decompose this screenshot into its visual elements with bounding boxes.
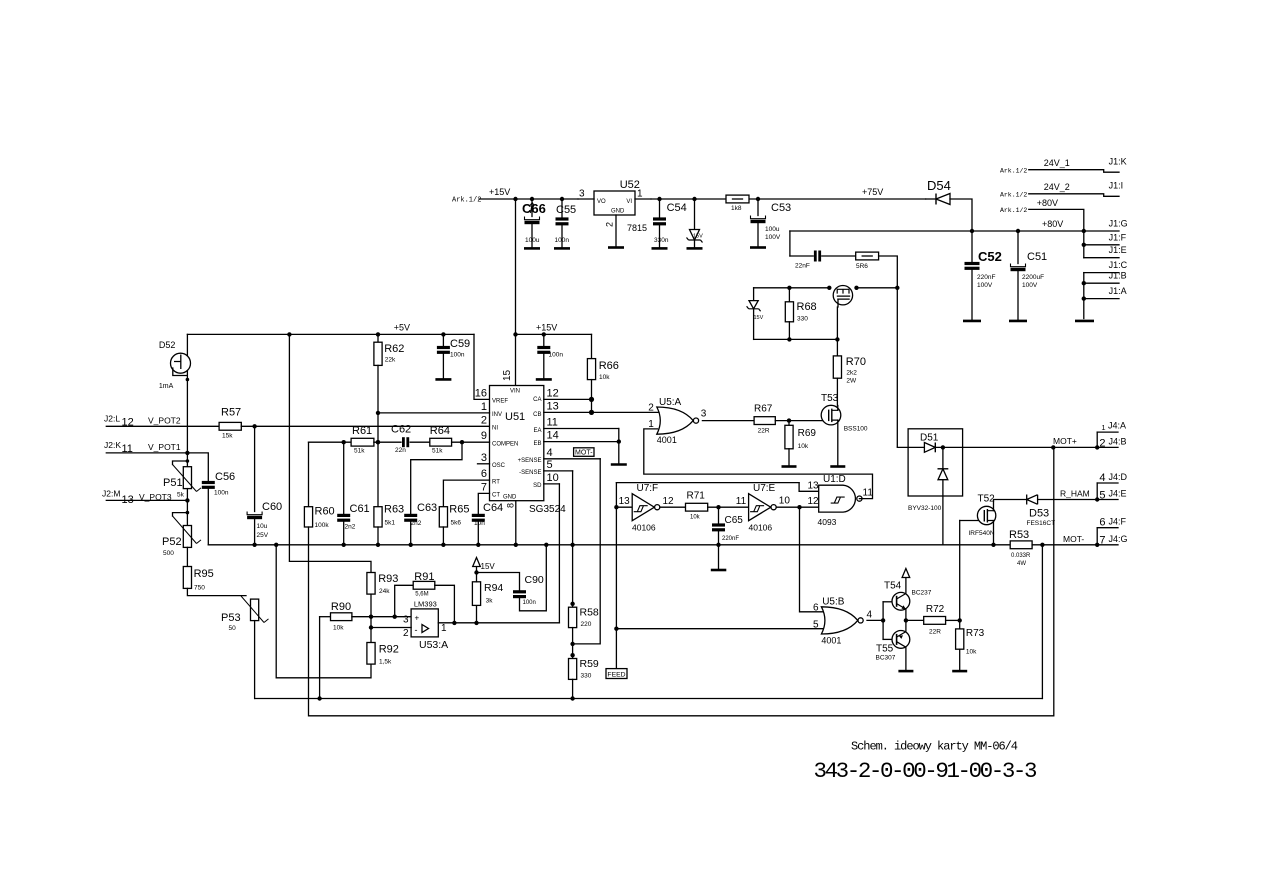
potentiometer P52 bbox=[186, 511, 190, 515]
svg-text:12: 12 bbox=[547, 387, 559, 399]
svg-text:T54: T54 bbox=[884, 581, 902, 592]
wire R71 to U7E bbox=[708, 506, 749, 508]
connector J4:A bbox=[1097, 431, 1118, 433]
svg-text:GND: GND bbox=[611, 209, 625, 215]
svg-text:MOT-: MOT- bbox=[575, 450, 593, 457]
svg-text:4001: 4001 bbox=[821, 636, 841, 646]
svg-text:2: 2 bbox=[481, 414, 487, 426]
svg-text:U1:D: U1:D bbox=[823, 474, 846, 485]
net label MOT- box bbox=[574, 448, 594, 457]
svg-text:FES16CT: FES16CT bbox=[1027, 520, 1056, 527]
svg-text:+15V: +15V bbox=[536, 323, 557, 333]
svg-text:40106: 40106 bbox=[632, 523, 656, 533]
resistor R65 bbox=[443, 480, 489, 507]
resistor R93 bbox=[367, 573, 375, 595]
resistor R59 bbox=[569, 659, 577, 680]
svg-text:T53: T53 bbox=[821, 393, 839, 404]
wire pin9 node to C63 bbox=[411, 442, 462, 514]
svg-text:R60: R60 bbox=[315, 506, 335, 518]
svg-text:5k6: 5k6 bbox=[451, 520, 462, 527]
wire R67 to T53 gate bbox=[775, 420, 822, 422]
svg-text:J4:A: J4:A bbox=[1108, 421, 1126, 431]
svg-text:VREF: VREF bbox=[492, 399, 508, 405]
wire U1D pin13 net thick bbox=[616, 482, 799, 484]
svg-text:24k: 24k bbox=[379, 588, 390, 595]
svg-text:100n: 100n bbox=[523, 600, 536, 606]
gate U1:D 4093 bbox=[799, 483, 819, 492]
svg-text:U5:A: U5:A bbox=[659, 397, 682, 408]
diode D51 BYV32-100 bbox=[908, 429, 963, 496]
wire R66 to CA/CB bbox=[591, 380, 593, 413]
wire U53 output bbox=[438, 622, 559, 624]
svg-text:MOT-: MOT- bbox=[1063, 534, 1084, 544]
svg-text:14: 14 bbox=[547, 430, 559, 442]
wire R70 to T53 drain bbox=[836, 378, 838, 406]
svg-text:GND: GND bbox=[503, 495, 517, 501]
wire R62-R63 column bbox=[377, 365, 379, 506]
resistor R72 bbox=[906, 619, 924, 621]
wire R61 to C62 bbox=[374, 441, 401, 443]
connector J1:A bbox=[1082, 296, 1086, 300]
svg-text:+75V: +75V bbox=[862, 187, 883, 197]
wire row2 bbox=[754, 338, 838, 340]
svg-text:10k: 10k bbox=[599, 374, 610, 381]
connector J1:G bbox=[1082, 229, 1086, 233]
svg-text:4: 4 bbox=[547, 447, 553, 459]
capacitor C54 bbox=[657, 197, 661, 201]
gate U7:E 40106 bbox=[749, 494, 771, 521]
svg-text:51k: 51k bbox=[354, 448, 365, 455]
svg-text:15V: 15V bbox=[693, 234, 703, 240]
svg-text:U52: U52 bbox=[620, 179, 640, 191]
svg-text:9: 9 bbox=[481, 430, 487, 442]
svg-text:220: 220 bbox=[581, 621, 592, 628]
connector J1:F bbox=[1082, 243, 1086, 247]
svg-text:22R: 22R bbox=[758, 428, 770, 435]
svg-text:-SENSE: -SENSE bbox=[519, 470, 541, 476]
svg-text:51k: 51k bbox=[432, 448, 443, 455]
wire R90 to U53 pin3 bbox=[352, 616, 411, 618]
svg-text:J1:A: J1:A bbox=[1109, 286, 1127, 296]
svg-text:R53: R53 bbox=[1009, 529, 1029, 541]
svg-text:R57: R57 bbox=[221, 407, 241, 419]
svg-text:R64: R64 bbox=[430, 425, 450, 437]
svg-text:6: 6 bbox=[481, 468, 487, 480]
wire gate row1 bbox=[754, 287, 830, 289]
svg-text:R59: R59 bbox=[580, 658, 599, 670]
svg-text:5: 5 bbox=[1099, 489, 1105, 501]
svg-text:1mA: 1mA bbox=[159, 383, 174, 390]
svg-text:J2:K: J2:K bbox=[104, 440, 121, 450]
pin13 CB wire bbox=[544, 411, 659, 413]
svg-text:R92: R92 bbox=[379, 644, 399, 656]
svg-text:500: 500 bbox=[163, 550, 174, 557]
svg-text:2: 2 bbox=[605, 222, 615, 227]
svg-text:C64: C64 bbox=[483, 502, 503, 514]
wire -SENSE down bbox=[572, 471, 574, 607]
resistor R63 bbox=[374, 507, 382, 527]
wire +80V rail bbox=[790, 230, 1084, 232]
wire +5V drop to R93 bbox=[289, 334, 371, 572]
zener diode 15V left bbox=[753, 288, 755, 301]
pin8 GND wire bbox=[515, 501, 517, 545]
svg-text:R91: R91 bbox=[414, 571, 434, 583]
wire T55 collector to ground bbox=[905, 647, 907, 671]
wire U7E out down to U5B pin6 bbox=[800, 507, 824, 612]
svg-text:10: 10 bbox=[547, 472, 559, 484]
gate U5:A 4001 bbox=[657, 407, 693, 434]
svg-text:RT: RT bbox=[492, 479, 500, 485]
svg-text:100n: 100n bbox=[549, 352, 564, 359]
svg-text:C54: C54 bbox=[667, 202, 687, 214]
svg-text:6: 6 bbox=[813, 603, 819, 614]
svg-text:10n: 10n bbox=[474, 520, 485, 527]
wire U53 pin2 bbox=[371, 627, 411, 629]
svg-text:5: 5 bbox=[813, 619, 819, 630]
svg-text:INV: INV bbox=[492, 412, 502, 418]
wire T53 source to ground bbox=[837, 420, 839, 466]
wire +15V sub rail bbox=[516, 333, 592, 335]
svg-text:J1:B: J1:B bbox=[1109, 271, 1127, 281]
wire SD down to U53 out bbox=[438, 484, 559, 623]
svg-text:2n2: 2n2 bbox=[345, 524, 356, 531]
svg-text:J1:C: J1:C bbox=[1109, 260, 1128, 270]
svg-text:J1:F: J1:F bbox=[1109, 232, 1127, 242]
svg-text:100n: 100n bbox=[555, 237, 570, 244]
svg-text:R63: R63 bbox=[384, 504, 404, 516]
resistor R67 bbox=[754, 417, 775, 425]
svg-text:SD: SD bbox=[533, 483, 542, 489]
svg-text:COMPEN: COMPEN bbox=[492, 442, 518, 448]
svg-text:7815: 7815 bbox=[627, 223, 647, 233]
wire feed vertical bbox=[615, 483, 617, 669]
svg-text:J1:K: J1:K bbox=[1109, 157, 1127, 167]
svg-text:7: 7 bbox=[1099, 535, 1105, 547]
resistor R64 bbox=[410, 441, 430, 443]
svg-text:50: 50 bbox=[229, 625, 237, 632]
svg-text:1,5k: 1,5k bbox=[379, 659, 392, 666]
svg-text:CB: CB bbox=[533, 412, 541, 418]
pin14 EB wire bbox=[544, 441, 619, 443]
svg-text:J1:G: J1:G bbox=[1109, 219, 1128, 229]
wire R60 to rail2 / MOT+ feedback bbox=[309, 447, 1054, 715]
svg-text:4: 4 bbox=[1099, 472, 1105, 484]
wire R95 to P53 bbox=[187, 588, 246, 595]
svg-text:U53:A: U53:A bbox=[419, 639, 448, 651]
wire P51-P52 junction bbox=[186, 489, 188, 526]
wire R90 left to rail1 bbox=[319, 617, 321, 699]
svg-text:C60: C60 bbox=[262, 501, 282, 513]
svg-text:R66: R66 bbox=[599, 360, 619, 372]
svg-text:3: 3 bbox=[579, 189, 585, 200]
resistor R61 bbox=[351, 438, 374, 446]
resistor R92 bbox=[367, 643, 375, 665]
wire T52 gate bbox=[960, 520, 978, 522]
connector J1:C bbox=[1083, 273, 1085, 319]
svg-text:10k: 10k bbox=[966, 649, 977, 656]
svg-text:D52: D52 bbox=[159, 340, 176, 350]
pin11 EA wire thick bbox=[544, 428, 619, 430]
svg-text:24V_1: 24V_1 bbox=[1044, 158, 1070, 168]
svg-text:0.033R: 0.033R bbox=[1011, 553, 1031, 559]
svg-text:J4:B: J4:B bbox=[1109, 437, 1127, 447]
svg-text:24V_2: 24V_2 bbox=[1044, 182, 1070, 192]
svg-text:R69: R69 bbox=[798, 428, 817, 439]
connector J1:B bbox=[1082, 281, 1086, 285]
ground J1 bbox=[1075, 320, 1094, 323]
svg-text:R67: R67 bbox=[754, 404, 773, 415]
svg-text:U51: U51 bbox=[505, 411, 525, 423]
connector J4:E bbox=[1096, 483, 1098, 500]
svg-text:2: 2 bbox=[403, 628, 409, 639]
svg-text:U7:F: U7:F bbox=[637, 483, 659, 494]
svg-text:22n: 22n bbox=[395, 447, 406, 454]
svg-text:FEED: FEED bbox=[607, 671, 625, 678]
svg-text:22nF: 22nF bbox=[795, 263, 810, 270]
svg-text:11: 11 bbox=[547, 417, 558, 429]
wire +15V rail left bbox=[479, 198, 578, 200]
wire U5B pin5 row bbox=[616, 628, 823, 630]
svg-text:R_HAM: R_HAM bbox=[1060, 489, 1090, 499]
wire T54 emitter to node bbox=[905, 609, 907, 632]
capacitor C60 bbox=[254, 426, 256, 511]
wire T52 gate down to R72 node bbox=[959, 521, 961, 621]
resistor R91 feedback bbox=[395, 585, 414, 616]
svg-text:C90: C90 bbox=[525, 574, 544, 586]
wire U1D out feedback to U5A pin1 bbox=[644, 429, 873, 499]
svg-text:J1:I: J1:I bbox=[1109, 181, 1124, 191]
svg-text:Ark.1/2: Ark.1/2 bbox=[1000, 167, 1027, 174]
svg-text:15V: 15V bbox=[481, 562, 496, 571]
wire U5A out to R67 bbox=[702, 420, 754, 422]
svg-text:J4:D: J4:D bbox=[1109, 472, 1128, 482]
wire EA-EB to ground thick bbox=[618, 429, 620, 465]
svg-text:+: + bbox=[415, 614, 420, 623]
svg-text:R58: R58 bbox=[580, 607, 599, 619]
svg-text:J2:L: J2:L bbox=[104, 414, 120, 424]
svg-text:BC237: BC237 bbox=[912, 590, 932, 597]
wire T54/T55 base column bbox=[882, 602, 884, 640]
gate U7:F 40106 bbox=[616, 506, 632, 508]
capacitor C59 bbox=[442, 334, 444, 346]
svg-text:C51: C51 bbox=[1027, 251, 1047, 263]
svg-text:BSS100: BSS100 bbox=[844, 426, 868, 433]
svg-text:4W: 4W bbox=[1017, 561, 1026, 567]
svg-text:12: 12 bbox=[808, 496, 820, 507]
svg-text:3: 3 bbox=[701, 409, 707, 420]
svg-text:R62: R62 bbox=[384, 343, 404, 355]
svg-text:J1:E: J1:E bbox=[1109, 245, 1127, 255]
svg-text:330: 330 bbox=[581, 673, 592, 680]
wire VREF pin16 bbox=[474, 334, 490, 399]
resistor R90 bbox=[320, 616, 331, 618]
svg-text:R95: R95 bbox=[194, 568, 214, 580]
connector J4:G bbox=[1096, 528, 1098, 545]
svg-text:13: 13 bbox=[619, 496, 631, 507]
wire T52 drain to R_HAM bbox=[994, 500, 1027, 511]
net label FEED box bbox=[606, 669, 627, 679]
zener diode 15V at C54 bbox=[692, 197, 696, 201]
svg-text:100u: 100u bbox=[525, 237, 540, 244]
svg-text:EA: EA bbox=[533, 428, 541, 434]
svg-text:5R6: 5R6 bbox=[856, 263, 868, 270]
svg-text:5k: 5k bbox=[177, 492, 185, 499]
pin12 CA stub bbox=[544, 398, 592, 400]
svg-text:15V: 15V bbox=[754, 315, 764, 321]
wire to C56 bbox=[187, 453, 208, 481]
capacitor C65 bbox=[718, 507, 720, 523]
svg-text:Ark.1/2: Ark.1/2 bbox=[1000, 191, 1027, 198]
svg-text:R93: R93 bbox=[378, 573, 398, 585]
svg-text:2200uF: 2200uF bbox=[1022, 274, 1044, 281]
svg-text:100k: 100k bbox=[315, 522, 330, 529]
svg-text:D54: D54 bbox=[927, 178, 951, 193]
svg-text:T52: T52 bbox=[978, 494, 996, 505]
svg-text:P52: P52 bbox=[162, 536, 182, 548]
wire bottom rail1 bbox=[255, 698, 1043, 700]
svg-text:100V: 100V bbox=[765, 234, 781, 241]
capacitor C64 bbox=[478, 493, 489, 514]
wire R64 to pin9 bbox=[452, 441, 490, 443]
svg-text:11: 11 bbox=[863, 488, 874, 499]
pin3 stub bbox=[478, 463, 490, 465]
svg-text:J2:M: J2:M bbox=[102, 489, 120, 499]
svg-text:LM393: LM393 bbox=[414, 599, 437, 608]
pin5 -SENSE wire bbox=[544, 470, 573, 472]
capacitor C66 bbox=[530, 197, 534, 201]
wire R57 to U51 pin2 bbox=[241, 425, 489, 427]
wire +5V rail bbox=[187, 333, 474, 335]
pin1 wire bbox=[378, 412, 490, 414]
svg-text:C53: C53 bbox=[771, 202, 791, 214]
svg-text:+15V: +15V bbox=[489, 187, 510, 197]
capacitor C53 bbox=[756, 197, 760, 201]
svg-text:6: 6 bbox=[1099, 517, 1105, 529]
svg-text:C52: C52 bbox=[978, 249, 1002, 264]
wire R92 bottom to ground rail bbox=[276, 545, 371, 678]
wire U7F out to R71 bbox=[660, 506, 686, 508]
wire +15V U51 feed bbox=[515, 199, 517, 386]
gate U5:B 4001 bbox=[821, 607, 857, 634]
svg-text:C55: C55 bbox=[556, 204, 576, 216]
svg-text:P53: P53 bbox=[221, 612, 241, 624]
svg-text:R94: R94 bbox=[484, 582, 503, 594]
svg-text:C62: C62 bbox=[391, 424, 411, 436]
wire U7E out bbox=[776, 506, 799, 508]
wire R59 to rail1 bbox=[572, 679, 574, 698]
svg-text:22R: 22R bbox=[929, 629, 941, 636]
resistor R62 bbox=[377, 334, 379, 342]
current regulator diode D52 bbox=[186, 334, 188, 453]
resistor R53 shunt bbox=[1010, 541, 1032, 549]
svg-text:5: 5 bbox=[547, 459, 553, 471]
svg-text:R61: R61 bbox=[352, 425, 372, 437]
svg-text:12: 12 bbox=[663, 496, 675, 507]
svg-text:R71: R71 bbox=[687, 491, 706, 502]
connector J1:E bbox=[1084, 257, 1119, 259]
svg-text:CA: CA bbox=[533, 397, 541, 403]
svg-text:11: 11 bbox=[736, 496, 747, 507]
svg-text:3: 3 bbox=[481, 452, 487, 464]
diode D54 bbox=[926, 198, 936, 200]
svg-text:16: 16 bbox=[475, 388, 487, 400]
svg-text:C63: C63 bbox=[417, 502, 437, 514]
wire R72 to R73 bbox=[946, 619, 960, 621]
svg-text:NI: NI bbox=[492, 426, 498, 432]
comparator U53:A LM393 bbox=[411, 609, 438, 637]
wire 80V to snubber bbox=[789, 231, 791, 256]
svg-text:330n: 330n bbox=[654, 237, 669, 244]
capacitor C90 bbox=[477, 573, 520, 591]
pin4 +SENSE wire bbox=[544, 458, 600, 460]
wire COMPEN row left bbox=[309, 441, 352, 443]
transistor T54 BC237 bbox=[892, 592, 910, 610]
wire R93 to R92 bbox=[370, 594, 372, 642]
svg-text:+80V: +80V bbox=[1037, 198, 1058, 208]
svg-text:750: 750 bbox=[194, 585, 205, 592]
IC U51 SG3524 bbox=[490, 386, 544, 501]
wire U7E out to U1D pin12 bbox=[800, 506, 819, 508]
svg-text:-: - bbox=[415, 625, 418, 635]
resistor R73 bbox=[959, 620, 961, 629]
transistor T55 BC307 bbox=[892, 631, 910, 649]
svg-text:8: 8 bbox=[506, 503, 516, 508]
svg-text:SG3524: SG3524 bbox=[529, 504, 566, 515]
potentiometer P51 bbox=[186, 453, 188, 467]
transistor T52 IRF540N bbox=[977, 506, 995, 524]
transistor T53 BSS100 bbox=[821, 405, 841, 425]
svg-text:+5V: +5V bbox=[394, 323, 410, 333]
svg-text:4: 4 bbox=[867, 610, 873, 621]
svg-text:J4:E: J4:E bbox=[1109, 489, 1127, 499]
svg-text:10u: 10u bbox=[257, 523, 268, 530]
svg-text:25V: 25V bbox=[257, 532, 269, 539]
svg-text:1k8: 1k8 bbox=[731, 205, 742, 212]
capacitor C56 bbox=[202, 481, 215, 484]
resistor R68 bbox=[788, 288, 790, 302]
svg-text:D51: D51 bbox=[920, 433, 939, 444]
svg-text:VIN: VIN bbox=[510, 389, 520, 395]
svg-text:U7:E: U7:E bbox=[753, 483, 776, 494]
wire T52 source to MOT- rail bbox=[993, 521, 995, 545]
node +15V/U51 junction bbox=[513, 197, 517, 201]
wire +15V rail right bbox=[651, 198, 926, 200]
svg-text:1: 1 bbox=[1101, 423, 1105, 432]
svg-text:220nF: 220nF bbox=[722, 536, 739, 542]
wire main ground rail bbox=[208, 544, 1010, 546]
svg-text:2n2: 2n2 bbox=[411, 520, 422, 527]
regulator U52 7815 bbox=[594, 191, 635, 215]
svg-text:13: 13 bbox=[808, 480, 820, 491]
svg-text:100V: 100V bbox=[1022, 282, 1038, 289]
svg-text:C65: C65 bbox=[725, 515, 744, 526]
svg-text:C61: C61 bbox=[350, 503, 370, 515]
resistor 5R6 bbox=[822, 255, 856, 257]
svg-text:10k: 10k bbox=[690, 515, 701, 521]
svg-text:15k: 15k bbox=[222, 433, 233, 440]
svg-text:330: 330 bbox=[797, 316, 808, 323]
svg-text:R65: R65 bbox=[449, 504, 469, 516]
svg-text:10: 10 bbox=[779, 496, 791, 507]
resistor R57 bbox=[219, 422, 241, 430]
svg-text:2: 2 bbox=[1099, 437, 1105, 449]
svg-text:4093: 4093 bbox=[818, 517, 837, 527]
svg-text:3: 3 bbox=[403, 615, 409, 626]
connector J4:B bbox=[1096, 432, 1098, 447]
svg-text:VO: VO bbox=[597, 199, 606, 205]
svg-text:22k: 22k bbox=[385, 357, 396, 364]
wire pin4 to R58-R59 node bbox=[573, 459, 601, 644]
